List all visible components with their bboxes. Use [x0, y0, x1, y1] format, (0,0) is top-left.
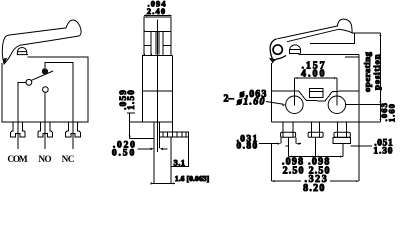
PCB strip (hatched)	[160, 132, 189, 137]
right view body	[271, 54, 359, 122]
dimension .323/8.20	[271, 122, 359, 181]
svg-text:0.50: 0.50	[112, 147, 136, 158]
right view boss profile	[271, 91, 359, 101]
right view terminal stubs	[283, 122, 346, 137]
svg-text:1.30: 1.30	[373, 146, 393, 156]
right view lever arm	[278, 26, 339, 42]
middle view body bottom	[130, 121, 173, 123]
left view plunger dome	[17, 47, 28, 54]
extension from 3.1 box	[170, 167, 172, 184]
COM centerline	[17, 122, 19, 149]
svg-text:0.80: 0.80	[236, 141, 258, 151]
svg-text:ø1.60: ø1.60	[236, 96, 266, 107]
terminal collar middle	[308, 132, 323, 137]
operating position dimension	[352, 32, 380, 34]
svg-text:COM: COM	[7, 155, 28, 165]
lever tip underside step	[310, 33, 354, 43]
COM lead wire	[18, 82, 26, 122]
svg-text:NO: NO	[38, 155, 51, 165]
extension line to tab	[130, 138, 155, 140]
middle view body seam line	[142, 90, 173, 92]
NO contact circle	[43, 87, 49, 93]
svg-text:1.50: 1.50	[126, 89, 136, 110]
middle view dimension line .094/2.40	[144, 14, 172, 16]
right view plunger dome	[289, 45, 301, 54]
pivot ring	[273, 45, 282, 54]
small rect between holes	[309, 89, 323, 98]
mounting hole right	[328, 96, 346, 114]
NC lead wire	[45, 63, 73, 122]
junction dots plunger guide	[143, 31, 171, 55]
NO lead wire	[44, 92, 46, 122]
left view lever arm	[2, 20, 81, 64]
svg-text:2–: 2–	[223, 93, 234, 104]
leader to hole	[266, 102, 284, 105]
contact dot (blade pivot, filled)	[42, 68, 48, 74]
middle view terminal tab	[154, 122, 160, 184]
terminal collar left	[281, 132, 296, 137]
dimension .063/1.60 vertical	[346, 105, 380, 123]
terminal right lower box	[333, 138, 351, 144]
terminal NC	[66, 122, 81, 136]
terminal COM	[11, 122, 26, 136]
middle view plunger top block	[144, 17, 171, 32]
terminal NO	[38, 122, 53, 136]
contact blade wire	[32, 71, 54, 80]
mounting hole left	[286, 96, 304, 114]
terminal collar right	[334, 132, 350, 137]
NO centerline	[44, 122, 46, 149]
svg-text:2.50: 2.50	[283, 165, 305, 176]
dimension .098/2.50 pair	[289, 146, 343, 156]
svg-text:1.6 [0.063]: 1.6 [0.063]	[175, 174, 210, 183]
COM pivot circle	[26, 79, 32, 85]
hole right centerline	[336, 78, 338, 105]
right view pivot housing	[270, 39, 286, 62]
lever hook wedge	[3, 58, 6, 64]
middle view main body	[142, 56, 173, 132]
svg-text:operating: operating	[362, 51, 372, 92]
svg-text:2.40: 2.40	[147, 7, 166, 16]
terminal pins	[286, 138, 344, 153]
hole left centerline	[293, 78, 295, 105]
svg-text:1.60: 1.60	[387, 103, 397, 122]
.059 dim line	[129, 113, 131, 139]
middle view centerline	[157, 20, 159, 152]
middle view plunger guide section	[144, 31, 171, 54]
left view switch body	[2, 57, 88, 122]
.059 extension stub	[127, 112, 135, 114]
svg-text:position: position	[372, 54, 382, 90]
NC centerline	[72, 122, 74, 149]
right view lever knob tip	[337, 19, 352, 33]
3.1 clearance box	[171, 137, 188, 167]
pivot hook beak	[270, 58, 275, 62]
svg-text:NC: NC	[62, 155, 74, 165]
svg-text:8.20: 8.20	[303, 183, 326, 192]
svg-text:3.1: 3.1	[173, 157, 185, 167]
